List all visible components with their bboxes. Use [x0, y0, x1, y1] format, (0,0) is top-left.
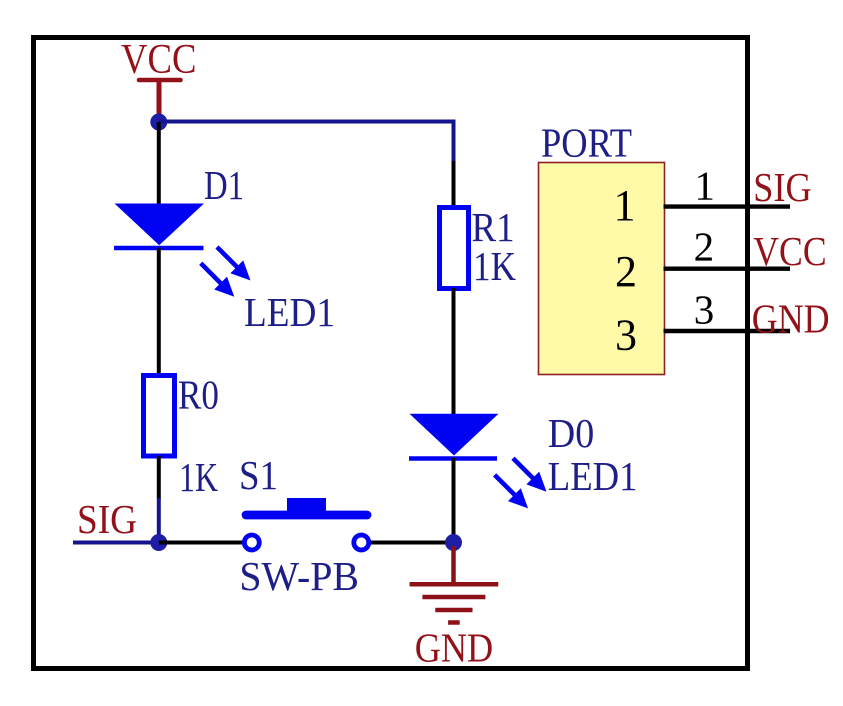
- svg-text:2: 2: [694, 224, 715, 270]
- resistor R0: [144, 372, 220, 501]
- wire R1 to D0: [452, 288, 456, 415]
- svg-text:LED1: LED1: [548, 453, 638, 499]
- LED D0: [409, 410, 638, 507]
- D0 light arrow lower: [495, 475, 527, 507]
- resistor R1: [440, 204, 517, 289]
- svg-text:VCC: VCC: [121, 37, 197, 83]
- svg-text:GND: GND: [752, 295, 830, 341]
- D1 light arrow upper: [217, 247, 249, 279]
- wire SIG node to switch: [159, 541, 243, 545]
- wire R1 pin top: [452, 161, 456, 207]
- svg-text:1K: 1K: [473, 243, 516, 289]
- svg-text:1K: 1K: [179, 454, 218, 500]
- wire D0 to GND node: [452, 458, 456, 543]
- wire switch to GND node: [371, 541, 454, 545]
- D1 light arrow lower: [201, 263, 233, 295]
- pin 1 wire: [664, 204, 791, 208]
- svg-text:1: 1: [694, 162, 715, 208]
- svg-text:SIG: SIG: [77, 496, 137, 542]
- connector PORT body: [539, 163, 665, 375]
- sheet border frame: [34, 38, 748, 669]
- svg-text:D0: D0: [548, 410, 595, 456]
- pin 2 wire: [664, 267, 791, 271]
- svg-text:S1: S1: [239, 452, 278, 498]
- svg-text:GND: GND: [415, 625, 493, 671]
- power symbol VCC: [121, 37, 197, 118]
- svg-text:3: 3: [694, 286, 715, 332]
- ground symbol GND: [410, 546, 499, 623]
- switch S1 SW-PB: [239, 452, 369, 599]
- pin 3 wire: [664, 329, 791, 333]
- svg-text:SW-PB: SW-PB: [239, 553, 359, 599]
- wire VCC node down to D1: [157, 122, 161, 205]
- svg-text:3: 3: [615, 311, 637, 360]
- node VCC junction: [150, 114, 167, 131]
- node GND junction: [445, 534, 462, 551]
- svg-text:R0: R0: [178, 372, 219, 418]
- svg-text:D1: D1: [204, 162, 244, 208]
- wire SIG stub: [73, 541, 159, 545]
- svg-text:VCC: VCC: [753, 228, 826, 274]
- wire D1 to R0: [157, 248, 161, 375]
- svg-text:PORT: PORT: [541, 120, 632, 166]
- node SIG junction: [150, 534, 167, 551]
- wire VCC horizontal to R1: [159, 122, 454, 164]
- D0 light arrow upper: [513, 458, 545, 490]
- LED D1: [114, 162, 335, 335]
- svg-text:2: 2: [615, 247, 637, 296]
- wire R0 to SIG node: [157, 498, 161, 543]
- svg-text:SIG: SIG: [753, 164, 811, 210]
- wire R0 pin bottom: [157, 456, 161, 499]
- svg-text:LED1: LED1: [244, 289, 335, 335]
- svg-text:1: 1: [614, 181, 636, 230]
